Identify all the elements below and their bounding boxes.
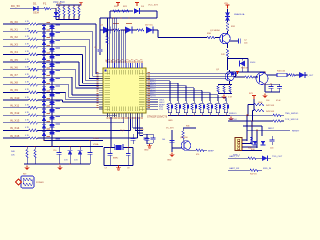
resistor R33 <box>245 76 253 78</box>
resistor R41 <box>34 150 36 159</box>
diode DB15 <box>49 124 54 127</box>
svg-text:POWER: POWER <box>36 182 44 184</box>
svg-text:SMAJ5.0A: SMAJ5.0A <box>234 13 245 16</box>
wire <box>258 169 262 171</box>
zener D7 <box>225 13 230 17</box>
svg-text:F1: F1 <box>43 2 47 6</box>
wire Q3 emitter <box>264 85 266 93</box>
svg-text:ESD: ESD <box>251 149 256 151</box>
output wire <box>267 74 278 76</box>
wire IN_X13 to U1 bottom pin <box>52 122 124 124</box>
power flag <box>237 72 239 74</box>
diode DB10 <box>49 86 54 89</box>
capacitor C15 <box>145 138 150 140</box>
resistor R43 <box>254 109 264 111</box>
capacitor C5 <box>277 86 282 88</box>
wire SWCLK <box>228 120 273 122</box>
diode DB16 <box>49 131 54 134</box>
long wires U1 to Q stage <box>150 73 229 75</box>
wire <box>51 8 56 10</box>
svg-text:VSSA: VSSA <box>93 143 99 146</box>
junctions <box>26 146 27 147</box>
svg-text:UART_RX: UART_RX <box>229 167 240 170</box>
resistor R31 <box>226 22 228 31</box>
wire <box>251 121 253 145</box>
svg-text:GND: GND <box>168 120 173 122</box>
stub U1 pin 15 <box>150 108 158 110</box>
stub U1 pin 14 <box>150 106 158 108</box>
svg-text:D1: D1 <box>33 2 37 6</box>
crystal Y1 <box>116 145 122 150</box>
junction <box>112 17 113 18</box>
junctions <box>109 147 110 148</box>
wire <box>121 29 126 31</box>
RC filter unit 8 (R,C) <box>225 101 227 103</box>
ESD rail B <box>51 24 53 147</box>
RC filter unit 2 (R,C) <box>177 101 179 103</box>
resistor R42 <box>254 103 264 105</box>
svg-text:IN_X11: IN_X11 <box>10 103 20 107</box>
wire IN_X15 to U1 bottom pin <box>52 137 137 139</box>
wire nrst short <box>243 125 262 127</box>
ground <box>118 166 120 168</box>
svg-text:IN_X6: IN_X6 <box>10 65 18 69</box>
wire Q2 base <box>150 78 226 80</box>
diode D3 <box>134 8 140 14</box>
U1 top pin numbers <box>107 61 109 62</box>
diode DA8 <box>42 71 46 75</box>
wire <box>31 180 33 185</box>
U1 bottom pin numbers <box>107 118 109 119</box>
U1 pin1 mark <box>105 70 107 72</box>
wire P1-4 <box>242 150 262 152</box>
RC filter unit 1 (R,C) <box>169 101 171 103</box>
resistor R39 <box>223 86 225 93</box>
diode D6 <box>146 27 153 34</box>
wire IN_X8 to U1 pin 11 <box>52 84 69 86</box>
wire IN_X14 to U1 bottom pin <box>52 129 131 131</box>
wire Q2 <box>229 70 231 72</box>
svg-text:Q1 S8050: Q1 S8050 <box>210 30 221 32</box>
diode D5 <box>125 27 132 34</box>
wire Q1 collector <box>227 32 229 34</box>
svg-text:R42 10K: R42 10K <box>266 105 275 107</box>
svg-text:VC_3V3: VC_3V3 <box>166 128 174 130</box>
diode DB7 <box>49 63 54 66</box>
wire <box>153 29 158 31</box>
U1 right pin numbers <box>148 72 150 73</box>
svg-text:IN_X12: IN_X12 <box>10 111 20 115</box>
svg-text:D6 VCC: D6 VCC <box>145 25 153 27</box>
wire <box>55 16 57 19</box>
diode D1 <box>33 6 38 11</box>
capacitor CR2 <box>151 137 156 139</box>
wires U1 bottom to reset group <box>132 117 134 128</box>
svg-text:Px: Px <box>113 60 115 62</box>
wire <box>100 29 103 31</box>
wire U1 right pin to RC 2 <box>150 82 178 84</box>
wire <box>253 99 255 105</box>
svg-text:8MHz: 8MHz <box>113 158 118 160</box>
wire crystal loop <box>104 147 115 149</box>
svg-text:Px: Px <box>126 60 128 62</box>
diode DA6 <box>42 56 46 60</box>
capacitor C1 <box>99 45 101 49</box>
diode D15 <box>262 156 268 161</box>
svg-text:C7: C7 <box>105 168 107 170</box>
wire U1 right pin to RC 4 <box>150 87 194 89</box>
svg-text:VIN: VIN <box>224 3 228 5</box>
diode D9 <box>299 72 305 78</box>
svg-text:GND: GND <box>144 150 149 152</box>
wire IN_X9 to U1 pin 12 <box>52 91 66 93</box>
diode DB3 <box>49 33 54 36</box>
ground <box>264 94 266 96</box>
wire U1 right pin to RC 5 <box>150 89 202 91</box>
svg-text:KEY8: KEY8 <box>150 96 156 98</box>
diode D13 <box>253 141 258 145</box>
wire U1 right pin to RC 3 <box>150 85 186 87</box>
diode DB14 <box>49 116 54 119</box>
power flag 2 <box>136 3 138 7</box>
svg-text:VCC_3V3: VCC_3V3 <box>148 5 159 7</box>
svg-text:R43 10K: R43 10K <box>266 111 275 113</box>
ground <box>171 153 173 155</box>
svg-text:IN_X15: IN_X15 <box>10 134 20 138</box>
svg-text:R33 1K: R33 1K <box>241 68 249 70</box>
wire Q1 base <box>158 37 207 39</box>
diode DB13 <box>49 109 54 112</box>
wire XTAL2 <box>127 117 129 148</box>
svg-text:R47 1K: R47 1K <box>250 174 257 176</box>
resistor R51 <box>229 86 231 93</box>
diode DB2 <box>49 25 54 28</box>
svg-text:SWDIO: SWDIO <box>229 113 237 115</box>
svg-text:Px: Px <box>131 60 133 62</box>
wire <box>172 147 182 149</box>
RC array ground rail <box>168 115 230 117</box>
ground <box>149 144 151 146</box>
wire <box>246 115 248 141</box>
wire IN_X7 to U1 pin 10 <box>52 76 72 78</box>
wire IN_X3 to U1 pin 4 <box>52 46 86 48</box>
svg-text:R34 0.05: R34 0.05 <box>277 71 286 73</box>
resistor R44 <box>273 114 281 116</box>
svg-text:0.5R: 0.5R <box>228 97 233 99</box>
power flag 1 <box>117 3 119 7</box>
svg-text:IN_X1: IN_X1 <box>10 27 18 31</box>
U1 left pin numbers <box>96 72 98 73</box>
resistor R22 <box>113 29 120 31</box>
diode DA7 <box>42 63 46 67</box>
wire <box>215 37 220 39</box>
wire IN_X10 to U1 pin 13 <box>52 99 62 101</box>
svg-text:470: 470 <box>196 154 199 156</box>
diode DA4 <box>42 41 46 45</box>
diode DA10 <box>42 86 46 90</box>
wire <box>143 133 153 135</box>
svg-text:SS34: SS34 <box>33 12 40 15</box>
wires to U1 top pins <box>107 18 109 63</box>
wire U1 right pin to RC 1 <box>150 80 170 82</box>
resistor RN4 <box>73 5 75 7</box>
resistor R38 <box>217 86 219 93</box>
diode DA2 <box>42 25 46 29</box>
wire <box>247 105 249 116</box>
resistor RN5 <box>78 5 80 7</box>
svg-text:NRST: NRST <box>268 128 275 130</box>
svg-text:STM32F103VCT6: STM32F103VCT6 <box>147 116 168 119</box>
resistor RN1 <box>58 5 60 7</box>
U1 top pins <box>107 63 109 68</box>
diode D4 <box>103 27 110 34</box>
wire <box>38 8 44 10</box>
svg-text:Q4 8550: Q4 8550 <box>180 137 189 139</box>
connector P1 <box>235 138 242 151</box>
resistor R47 <box>250 169 258 171</box>
MCU U1 body <box>103 68 146 113</box>
diode DA3 <box>42 33 46 37</box>
diode DB9 <box>49 78 54 81</box>
wire <box>55 9 57 12</box>
transistor Q1 <box>220 33 230 43</box>
wire rail VDD <box>44 139 103 141</box>
wire XTAL1 <box>110 117 112 148</box>
svg-text:TMS_SWDIO: TMS_SWDIO <box>285 113 299 115</box>
svg-text:47uF: 47uF <box>276 100 281 102</box>
U1 right pins <box>146 73 150 75</box>
relay loop <box>247 59 249 73</box>
svg-text:VDDA: VDDA <box>93 137 99 140</box>
wire <box>252 111 254 122</box>
power flag VIN <box>227 5 229 9</box>
U1 left pins <box>99 73 103 75</box>
diode D10 <box>231 72 236 76</box>
diode DB6 <box>49 55 54 58</box>
LED D16 <box>16 179 22 185</box>
diode DA12 <box>42 101 46 105</box>
svg-text:UART_TX: UART_TX <box>229 155 239 158</box>
wire bus top <box>56 4 79 6</box>
wire top rail <box>110 10 133 12</box>
svg-text:C8: C8 <box>127 168 129 170</box>
RC filter unit 4 (R,C) <box>193 101 195 103</box>
P1 pins <box>238 139 240 141</box>
svg-text:IN_X7: IN_X7 <box>10 73 18 77</box>
svg-text:IN_X2: IN_X2 <box>10 35 18 39</box>
wire IN_X6 to U1 pin 7 <box>52 69 76 71</box>
svg-text:IN_X4: IN_X4 <box>10 50 18 54</box>
wire <box>256 130 258 148</box>
wire <box>256 157 262 159</box>
diode DA5 <box>42 48 46 52</box>
diode D12 <box>78 150 83 154</box>
wire U1 right pin to RC 8 <box>150 96 226 98</box>
wire cap rail <box>265 91 280 93</box>
wire rail2 <box>218 93 232 95</box>
wire SWDIO <box>228 114 273 116</box>
svg-text:IN_X13: IN_X13 <box>10 119 20 123</box>
wire IN_X2 to U1 pin 3 <box>52 38 89 40</box>
capacitor C2 <box>230 40 238 42</box>
wire <box>10 8 33 10</box>
capacitor C16 <box>88 152 93 154</box>
labels <box>113 23 119 24</box>
resistor R20 <box>113 10 120 12</box>
resistor R45 <box>273 120 281 122</box>
resistor R35 <box>289 74 296 76</box>
resistor R30 <box>207 36 215 38</box>
stub U1 pin 13 <box>150 103 158 105</box>
diode DB11 <box>49 93 54 96</box>
svg-text:10K: 10K <box>11 155 15 157</box>
capacitor C8 <box>126 153 131 155</box>
resistor R34 <box>277 73 287 77</box>
wire rail <box>228 71 266 73</box>
transistor Q2 <box>225 72 234 81</box>
svg-text:SWCLK: SWCLK <box>229 119 237 121</box>
ground <box>230 117 232 119</box>
svg-text:IN_X9: IN_X9 <box>10 88 18 92</box>
U1 bottom pins <box>107 113 109 117</box>
diode DA13 <box>42 109 46 113</box>
wire IN_X5 to U1 pin 6 <box>52 61 79 63</box>
resistor RN2 <box>63 5 65 7</box>
diode DB12 <box>49 101 54 104</box>
wire U1 right pin to RC 6 <box>150 92 210 94</box>
resistor R46 <box>248 157 256 159</box>
svg-text:C10: C10 <box>53 150 56 152</box>
capacitor C14 <box>131 138 136 140</box>
resistor F1 <box>44 7 51 9</box>
wire IN_X12 to U1 bottom pin <box>52 114 117 116</box>
wire Q2 emitter <box>229 81 231 85</box>
capacitor C7 <box>108 153 113 155</box>
wire <box>268 157 271 159</box>
wire Q3 collector <box>264 72 266 73</box>
stub U1 pin 11 <box>150 99 158 101</box>
wire NRST <box>247 129 290 131</box>
diode D11 <box>68 150 73 154</box>
diode DA14 <box>42 117 46 121</box>
U1 pin names <box>105 73 111 75</box>
svg-text:24V: 24V <box>221 54 225 56</box>
resistor R49 <box>23 178 32 180</box>
capacitor C10 <box>57 152 62 154</box>
resistor RN3 <box>68 5 70 7</box>
comb pin numbers <box>59 6 60 7</box>
diode D8 flyback <box>240 61 246 67</box>
diode DA16 <box>42 132 46 136</box>
RC filter unit 6 (R,C) <box>209 101 211 103</box>
svg-text:Px: Px <box>140 60 142 62</box>
wire <box>287 74 289 76</box>
wire <box>140 10 157 12</box>
node VCC5 <box>55 8 56 9</box>
diode DB5 <box>49 48 54 51</box>
wire <box>204 149 207 151</box>
wire <box>253 76 258 78</box>
resistor R32 <box>226 49 228 57</box>
wire <box>253 110 255 112</box>
wire IN_X0 to U1 pin 1 <box>52 23 96 25</box>
wire <box>99 18 101 45</box>
capacitor CR1 <box>144 137 149 139</box>
ground <box>26 166 28 168</box>
wire <box>227 57 229 59</box>
svg-text:Px: Px <box>117 60 119 62</box>
resistor R50 <box>23 183 32 185</box>
diode DA9 <box>42 79 46 83</box>
svg-text:IN_X8: IN_X8 <box>10 81 18 85</box>
wire rail low <box>24 163 90 165</box>
svg-text:SS14: SS14 <box>250 62 256 64</box>
diode DB4 <box>49 40 54 43</box>
wire U1 right pin to RC 7 <box>150 94 218 96</box>
wire IN_X4 to U1 pin 5 <box>52 53 82 55</box>
wire <box>296 74 300 76</box>
wire rail <box>218 84 232 86</box>
resistor R21 <box>122 10 129 12</box>
wire <box>281 114 284 116</box>
wire <box>305 74 308 76</box>
ground <box>59 166 61 168</box>
resistor R48 <box>250 137 252 144</box>
wire <box>183 127 196 129</box>
wire P1-3 <box>242 146 257 148</box>
diode D2 TVS <box>54 12 59 16</box>
capacitor C13 <box>270 139 275 141</box>
wire Q1 emitter <box>227 44 229 48</box>
svg-text:GND: GND <box>167 160 172 162</box>
capacitor C6 <box>170 140 175 142</box>
power flag 3V3 <box>253 96 255 100</box>
resistor R36 <box>182 131 184 139</box>
RC filter unit 5 (R,C) <box>201 101 203 103</box>
wire P1-2 <box>242 143 252 145</box>
wire IN_X11 to U1 bottom pin <box>52 107 110 109</box>
svg-text:R36: R36 <box>186 126 189 128</box>
transistor Q3 <box>256 73 268 85</box>
wire <box>171 130 173 152</box>
svg-text:22pF: 22pF <box>120 130 125 132</box>
svg-text:TCK_SWCLK: TCK_SWCLK <box>285 119 299 121</box>
svg-text:4.7K: 4.7K <box>57 3 62 5</box>
svg-text:Px: Px <box>136 60 138 62</box>
ESD rail A <box>43 24 45 140</box>
diode DA15 <box>42 124 46 128</box>
svg-text:IN_X0: IN_X0 <box>10 20 18 24</box>
svg-text:Px: Px <box>122 60 124 62</box>
svg-text:DC_5V: DC_5V <box>11 4 20 8</box>
svg-text:TXD_OUT: TXD_OUT <box>272 156 283 158</box>
wire <box>265 83 280 85</box>
transistor Q4 <box>181 141 191 151</box>
stub U1 pin 12 <box>150 101 158 103</box>
diode D14 <box>261 141 266 145</box>
svg-text:BEEP: BEEP <box>208 151 214 153</box>
diode DA11 <box>42 94 46 98</box>
svg-text:RESET: RESET <box>292 130 300 132</box>
indicator box <box>21 176 34 188</box>
RC filter unit 3 (R,C) <box>185 101 187 103</box>
wire P1-1 <box>242 139 247 141</box>
svg-text:IN_X5: IN_X5 <box>10 58 18 62</box>
ground <box>223 95 225 97</box>
resistor R23 <box>137 29 144 31</box>
svg-text:Px: Px <box>108 60 110 62</box>
resistor R40 <box>26 150 28 159</box>
